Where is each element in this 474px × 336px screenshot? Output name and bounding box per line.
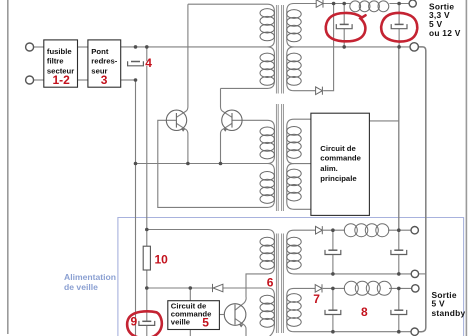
- box circuit de commande veille: [168, 301, 220, 330]
- blue standby region box: [118, 218, 464, 336]
- wire main rect lower vertical x333.6: [323, 4, 333, 91]
- transformer TR2 secondary winding1 loops: [287, 126, 301, 135]
- frame left line: [7, 0, 9, 334]
- frame right line: [465, 0, 467, 336]
- wire rectifier - stub: [121, 79, 136, 81]
- svg-text:6: 6: [267, 275, 274, 289]
- wire T2 emitter down to bus: [221, 123, 233, 163]
- wire input N to box1: [34, 79, 44, 81]
- transformer TR1 secondary upper loops: [287, 10, 301, 19]
- wire veille box to Q3 base: [219, 314, 224, 316]
- wire cap2 branch lower: [398, 29, 400, 47]
- transistor Q3 standby: [224, 304, 246, 326]
- input terminal L: [26, 43, 34, 51]
- capacitor C4 bulk: [131, 61, 140, 63]
- red annotation circle cap1: [326, 13, 366, 41]
- svg-text:5: 5: [202, 315, 209, 329]
- transistor Q2: [222, 110, 242, 130]
- svg-text:Pont: Pont: [91, 47, 109, 56]
- wire cap branch r3b: [398, 288, 400, 310]
- wire node down to veille box: [189, 288, 191, 301]
- svg-text:5 V: 5 V: [432, 298, 445, 308]
- wire Vcc diode to node: [147, 287, 213, 289]
- transformer TR2 secondary winding2 path to control box: [287, 164, 311, 210]
- transformer TR3 core: [275, 234, 277, 334]
- transformer TR2 drive winding1 path with T2 base and emitter bus: [136, 120, 275, 163]
- wire T1 collector vertical: [176, 4, 188, 117]
- transformer TR1 primary upper winding path: [121, 4, 275, 47]
- wire main out top rail: [323, 3, 350, 5]
- wire box1 to box2 bottom: [78, 79, 88, 81]
- transformer TR3 primary loops: [260, 237, 274, 246]
- wire row1 coil to terminal: [388, 229, 411, 231]
- transformer TR3 secondary winding1 loops: [287, 237, 301, 246]
- wire cap branch r1b: [398, 230, 400, 250]
- transformer TR3 aux winding path to Vcc diode: [223, 288, 274, 336]
- wire cap branch r1a: [332, 230, 334, 250]
- svg-text:7: 7: [313, 292, 320, 306]
- transformer TR3 primary winding path with Q3 collector: [147, 230, 275, 298]
- svg-text:principale: principale: [320, 174, 357, 183]
- svg-text:1-2: 1-2: [53, 73, 71, 87]
- wire rail B below cap9: [146, 326, 148, 336]
- box fusible filtre secteur: [44, 40, 78, 87]
- svg-text:redres-: redres-: [91, 57, 118, 66]
- wire cap1 branch upper: [343, 4, 345, 25]
- wire input L to box1: [34, 46, 44, 48]
- box pont redresseur: [88, 40, 121, 87]
- junction dots: [134, 45, 138, 49]
- svg-text:3: 3: [101, 73, 108, 87]
- transformer TR1 core: [275, 5, 277, 94]
- red annotation circle cap9: [127, 311, 162, 336]
- transformer TR1 secondary lower winding path to lower diode: [287, 47, 316, 91]
- wire row1 diode to coil: [323, 229, 345, 231]
- transformer TR2 primary winding2 loops: [260, 172, 274, 181]
- inductor standby row1: [344, 224, 357, 237]
- svg-text:veille: veille: [171, 318, 191, 327]
- svg-text:de veille: de veille: [64, 282, 98, 292]
- output terminal standby row2: [411, 270, 418, 277]
- transformer TR3 aux winding loops: [260, 295, 274, 304]
- capacitor C9: [142, 320, 151, 322]
- capacitor standby r1b: [394, 249, 403, 251]
- output terminal standby row4: [411, 328, 418, 335]
- transformer TR2 secondary winding1 path to control box: [287, 119, 311, 163]
- capacitor main out 2: [395, 23, 404, 25]
- input terminal N: [26, 76, 34, 84]
- transformer TR1 primary upper loops: [260, 9, 274, 18]
- wire box1 to box2 top: [78, 46, 88, 48]
- svg-text:commande: commande: [320, 154, 361, 163]
- diode aux Vcc pointing left: [213, 284, 223, 292]
- wire cap branch r3a: [332, 288, 334, 310]
- diode standby row3 D7: [315, 284, 322, 292]
- wire Q3 emitter to ground rail: [235, 319, 246, 336]
- capacitor standby r3a: [328, 309, 337, 311]
- capacitor standby r1a: [328, 249, 337, 251]
- wire ground bus from 0V terminal down right side: [418, 47, 425, 332]
- inductor main output filter: [350, 1, 361, 12]
- output terminal standby row1: [411, 227, 418, 234]
- diode main bottom: [316, 87, 323, 95]
- wire T2 collector vertical: [221, 88, 233, 117]
- wire feedback tee into control box: [369, 120, 398, 122]
- output terminal main 0V: [410, 43, 418, 51]
- transformer TR3 secondary winding2 loops: [287, 294, 301, 303]
- wire T1 emitter down to bus: [176, 123, 188, 163]
- capacitor standby r3b: [394, 309, 403, 311]
- transformer TR2 secondary winding2 loops: [287, 169, 301, 178]
- wire rail B resistor to Vcc node: [146, 270, 148, 321]
- wire row2 terminal stub to ground bus: [419, 273, 426, 275]
- transformer TR1 primary lower loops: [260, 53, 274, 62]
- capacitor main out 1: [340, 23, 349, 25]
- wire rail B +HT vertical upper: [146, 47, 148, 61]
- output terminal main +: [409, 0, 416, 7]
- transformer TR2 drive winding2 path with T1 base loop: [158, 120, 275, 207]
- transformer TR2 primary winding1 loops: [260, 127, 274, 136]
- transformer TR1 primary lower winding path: [221, 47, 275, 89]
- svg-text:ou 12 V: ou 12 V: [429, 28, 461, 38]
- wire below veille box: [189, 330, 191, 336]
- wire cap2 branch upper: [398, 4, 400, 25]
- wire main out top after coil to terminal: [389, 3, 409, 5]
- resistor R10: [143, 246, 150, 270]
- wire cap1 branch lower: [343, 29, 345, 47]
- wire Q3 collector diagonal: [235, 298, 246, 311]
- svg-text:4: 4: [145, 56, 152, 70]
- svg-text:Circuit de: Circuit de: [320, 144, 356, 153]
- transistor Q1: [166, 110, 186, 130]
- wire row3 diode to coil: [323, 287, 345, 289]
- svg-text:standby: standby: [432, 308, 466, 318]
- wire feedback vertical from 0V rail to standby row1: [398, 47, 400, 230]
- box circuit de commande alim principale: [311, 113, 370, 215]
- transformer TR3 secondary winding1 path row1: [287, 230, 411, 274]
- svg-text:10: 10: [155, 252, 169, 266]
- transformer TR3 secondary winding2 path row3: [287, 288, 411, 331]
- wire rail A ground vertical: [135, 80, 137, 336]
- diode main top: [316, 0, 323, 8]
- inductor standby row3: [344, 281, 358, 295]
- transformer TR1 secondary upper winding path to diode: [287, 4, 410, 47]
- transformer TR2 core: [275, 104, 277, 211]
- wire rail B below cap4: [146, 66, 148, 246]
- wire row3 coil to terminal: [389, 287, 412, 289]
- transformer TR1 secondary lower loops: [287, 53, 301, 62]
- svg-text:filtre: filtre: [47, 57, 64, 66]
- red annotation circle cap2: [381, 13, 417, 42]
- output terminal standby row3: [412, 285, 419, 292]
- svg-text:8: 8: [361, 305, 368, 319]
- svg-text:Alimentation: Alimentation: [64, 272, 116, 282]
- diode standby row1: [316, 226, 323, 234]
- svg-text:alim.: alim.: [320, 164, 338, 173]
- svg-text:fusible: fusible: [47, 47, 72, 56]
